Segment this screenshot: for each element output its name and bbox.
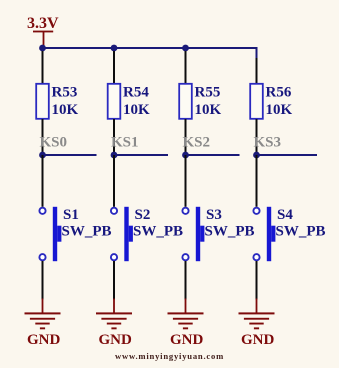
node: KS0 junction <box>39 152 46 159</box>
wire: R56 pin 2 <box>256 119 258 155</box>
svg-text:KS0: KS0 <box>40 135 68 151</box>
svg-text:S3: S3 <box>206 207 222 223</box>
wire: S3 pin 1 <box>185 155 187 207</box>
svg-text:www.minyingyiyuan.com: www.minyingyiyuan.com <box>115 351 224 361</box>
resistor R55 <box>179 84 221 119</box>
wire: net KS0 stub <box>43 154 97 156</box>
wire: R56 pin 1 <box>256 58 258 84</box>
svg-text:SW_PB: SW_PB <box>133 223 183 239</box>
svg-text:GND: GND <box>99 332 133 348</box>
svg-text:SW_PB: SW_PB <box>62 223 112 239</box>
wire: R55 pin 1 <box>185 51 187 84</box>
svg-text:GND: GND <box>27 332 61 348</box>
node: KS1 junction <box>111 152 118 159</box>
svg-text:3.3V: 3.3V <box>27 15 59 32</box>
ground symbol GND (column 4) <box>239 299 275 348</box>
wire: S1 pin 2 <box>42 261 44 300</box>
wire: 3.3V top bus <box>43 48 257 58</box>
wire: R53 pin 2 <box>42 119 44 155</box>
svg-text:SW_PB: SW_PB <box>205 223 255 239</box>
svg-text:R53: R53 <box>52 85 78 101</box>
power symbol 3.3V <box>27 15 59 46</box>
wire: S4 pin 1 <box>256 155 258 207</box>
svg-text:R56: R56 <box>266 85 292 101</box>
wire: net KS3 stub <box>257 154 318 156</box>
resistor R54 <box>108 84 150 119</box>
svg-text:KS2: KS2 <box>183 135 211 151</box>
wire: R54 pin 2 <box>113 119 115 155</box>
svg-text:R55: R55 <box>195 85 221 101</box>
pushbutton switch S3 (SW_PB) <box>182 207 254 261</box>
svg-text:10K: 10K <box>123 102 150 118</box>
pushbutton switch S1 (SW_PB) <box>39 207 111 261</box>
wire: S3 pin 2 <box>185 261 187 300</box>
node: bus junction 1 <box>39 45 46 52</box>
svg-text:GND: GND <box>241 332 275 348</box>
svg-text:S1: S1 <box>63 207 79 223</box>
resistor R56 <box>250 84 292 119</box>
wire: net KS1 stub <box>114 154 168 156</box>
svg-text:KS3: KS3 <box>254 135 282 151</box>
node: bus junction 2 <box>111 45 118 52</box>
node: bus junction 3 <box>182 45 189 52</box>
svg-text:SW_PB: SW_PB <box>276 223 326 239</box>
wire: R54 pin 1 <box>113 51 115 84</box>
svg-text:10K: 10K <box>195 102 222 118</box>
wire: S2 pin 1 <box>113 155 115 207</box>
wire: R53 pin 1 <box>42 51 44 84</box>
wire: S1 pin 1 <box>42 155 44 207</box>
wire: S4 pin 2 <box>256 261 258 300</box>
ground symbol GND (column 1) <box>25 299 61 348</box>
svg-text:10K: 10K <box>52 102 79 118</box>
svg-text:S2: S2 <box>135 207 151 223</box>
pushbutton switch S4 (SW_PB) <box>253 207 325 261</box>
node: KS3 junction <box>253 152 260 159</box>
node: KS2 junction <box>182 152 189 159</box>
ground symbol GND (column 2) <box>96 299 132 348</box>
svg-text:R54: R54 <box>123 85 149 101</box>
resistor R53 <box>36 84 78 119</box>
svg-text:S4: S4 <box>277 207 293 223</box>
svg-text:10K: 10K <box>266 102 293 118</box>
svg-text:KS1: KS1 <box>111 135 139 151</box>
svg-text:GND: GND <box>170 332 204 348</box>
wire: net KS2 stub <box>186 154 240 156</box>
wire: S2 pin 2 <box>113 261 115 300</box>
pushbutton switch S2 (SW_PB) <box>111 207 183 261</box>
ground symbol GND (column 3) <box>168 299 204 348</box>
wire: R55 pin 2 <box>185 119 187 155</box>
